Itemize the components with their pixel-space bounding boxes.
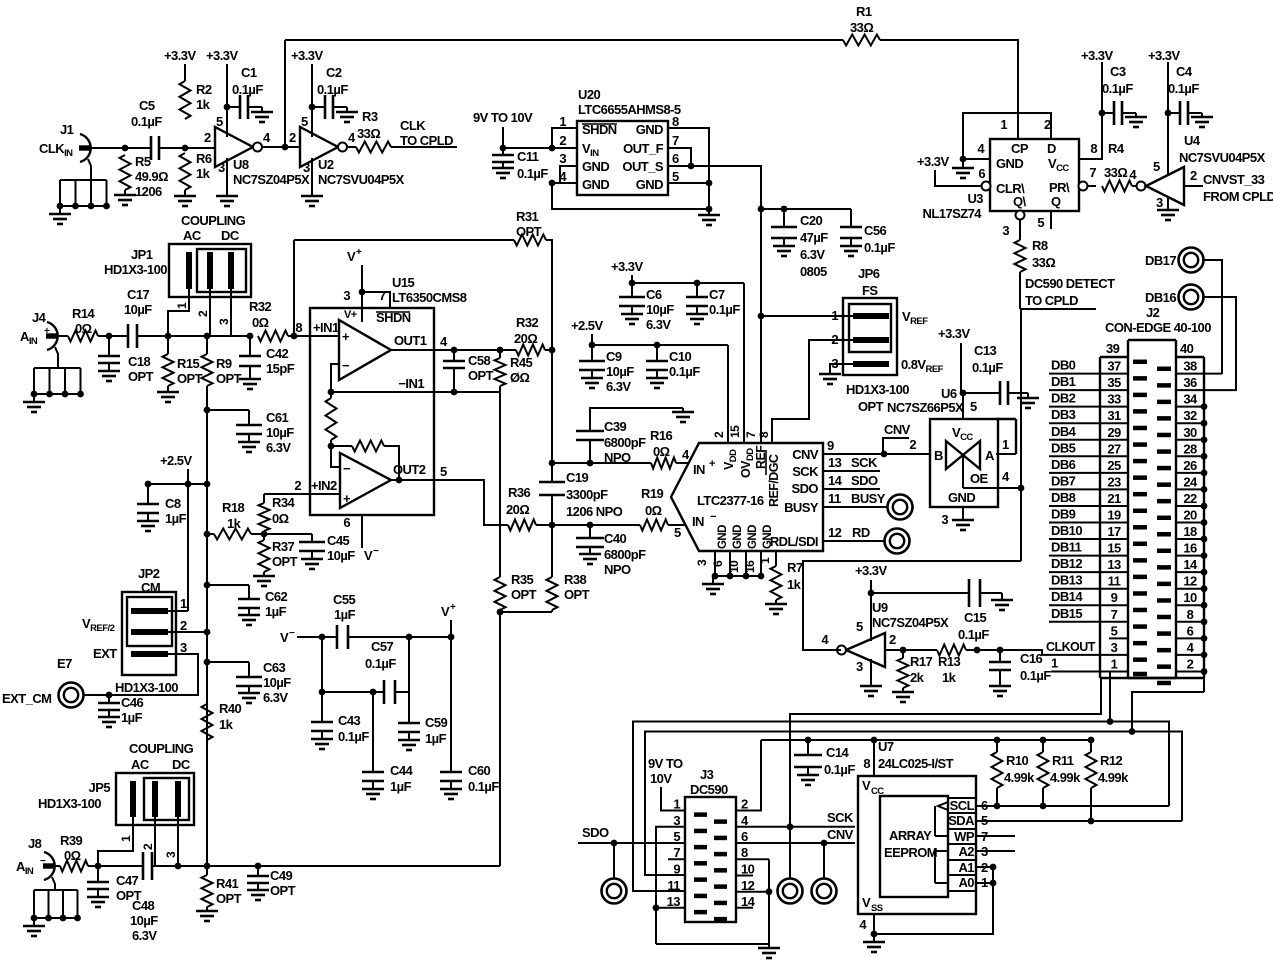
svg-text:GND: GND [747, 525, 759, 549]
svg-text:20Ω: 20Ω [514, 331, 537, 346]
svg-text:C56: C56 [864, 223, 887, 238]
svg-text:3: 3 [941, 512, 948, 527]
flipflop U3 NL17SZ74 [990, 139, 1079, 211]
svg-text:16: 16 [1183, 541, 1197, 556]
svg-text:C20: C20 [800, 213, 823, 228]
svg-text:33Ω: 33Ω [850, 20, 873, 35]
wire VREF cap rail [761, 208, 851, 210]
svg-text:D: D [1047, 141, 1056, 156]
svg-text:R14: R14 [72, 306, 96, 321]
svg-text:11: 11 [1108, 574, 1121, 589]
svg-text:C8: C8 [165, 496, 181, 511]
svg-text:C48: C48 [132, 898, 155, 913]
svg-text:CON-EDGE 40-100: CON-EDGE 40-100 [1105, 320, 1211, 335]
svg-text:+: + [44, 326, 50, 337]
J3 pin12 wire [736, 891, 769, 893]
resistor R32 20ohm (output) [516, 345, 545, 356]
V- branch down [321, 637, 323, 692]
net CLK TO CPLD [391, 146, 457, 148]
svg-text:+3.3V: +3.3V [291, 48, 323, 63]
svg-text:EXT_CM: EXT_CM [2, 691, 51, 706]
node C18 [106, 333, 113, 340]
svg-text:J4: J4 [32, 310, 47, 325]
svg-text:R10: R10 [1006, 753, 1029, 768]
JP5 pin2 wire [154, 817, 156, 866]
svg-text:6800pF: 6800pF [604, 435, 646, 450]
capacitor C62 1uF [207, 584, 249, 586]
svg-text:C44: C44 [390, 763, 414, 778]
U3 pin4 GND [963, 158, 990, 160]
svg-text:DB14: DB14 [1051, 589, 1083, 604]
opamp U15 LT6350CMS8 [310, 308, 434, 515]
ADC bottom gnd pins [714, 551, 716, 576]
V+ rail down to C60 [450, 637, 452, 772]
svg-text:GND: GND [732, 525, 744, 549]
svg-text:8: 8 [863, 756, 870, 771]
U8 pin3 ground [226, 158, 228, 190]
wire U8 out [262, 146, 285, 148]
svg-text:JP6: JP6 [858, 266, 880, 281]
svg-text:U15: U15 [392, 275, 415, 290]
capacitor C56 0.1uF [850, 209, 852, 227]
resistor R13 1k [903, 649, 937, 651]
svg-text:5: 5 [672, 169, 679, 184]
open node bubble [1137, 182, 1146, 191]
capacitor C18 OPT [108, 336, 110, 356]
svg-text:HD1X3-100: HD1X3-100 [104, 262, 167, 277]
svg-text:C17: C17 [127, 287, 150, 302]
U2 pin3 ground [311, 158, 313, 190]
svg-text:DB7: DB7 [1051, 473, 1076, 488]
svg-text:V: V [364, 548, 373, 563]
node C47 [95, 863, 102, 870]
svg-text:DB11: DB11 [1051, 540, 1082, 555]
svg-text:−: − [40, 856, 46, 867]
J3 pin13 wire [656, 907, 685, 909]
svg-text:HD1X3-100: HD1X3-100 [38, 796, 101, 811]
svg-text:Q\: Q\ [1013, 194, 1027, 209]
wire R35 R38 bottoms [499, 610, 501, 612]
svg-text:GND: GND [582, 159, 609, 174]
node +IN1 [291, 333, 298, 340]
svg-text:R19: R19 [641, 486, 664, 501]
svg-text:BUSY: BUSY [784, 500, 819, 515]
svg-text:C39: C39 [604, 419, 627, 434]
U20 ground [706, 206, 713, 213]
svg-text:9: 9 [1111, 590, 1118, 605]
capacitor C39 6800pF NPO [590, 408, 683, 431]
svg-text:5: 5 [673, 829, 680, 844]
U3 pin8 VCC wire [1079, 62, 1102, 159]
resistor R34 0ohm [263, 494, 265, 503]
wire J1 to C5 [122, 145, 129, 152]
svg-text:U6: U6 [941, 386, 957, 401]
capacitor C59 1uF [408, 692, 410, 723]
svg-text:+3.3V: +3.3V [855, 563, 887, 578]
svg-text:R37: R37 [272, 539, 295, 554]
svg-text:21: 21 [1107, 491, 1121, 506]
svg-text:NC7SZ04P5X: NC7SZ04P5X [233, 172, 310, 187]
svg-text:NC7SVU04P5X: NC7SVU04P5X [318, 172, 405, 187]
svg-text:5: 5 [970, 399, 977, 414]
svg-text:C2: C2 [326, 65, 342, 80]
svg-text:6800pF: 6800pF [604, 547, 646, 562]
svg-text:DC: DC [172, 757, 191, 772]
J3 pin3 wire [656, 827, 685, 944]
svg-text:CNV: CNV [792, 447, 819, 462]
bus line A J2 column to SCK [790, 678, 1101, 826]
svg-text:10µF: 10µF [606, 364, 634, 379]
svg-text:C55: C55 [333, 592, 356, 607]
svg-text:A: A [985, 448, 995, 463]
svg-text:25: 25 [1107, 458, 1121, 473]
wire R31 row [294, 239, 514, 241]
opamp A feedback to -IN1 [331, 364, 339, 392]
svg-text:DB12: DB12 [1051, 556, 1082, 571]
svg-text:2: 2 [559, 133, 566, 148]
svg-text:10µF: 10µF [646, 302, 674, 317]
resistor R39 0ohm [60, 861, 88, 872]
svg-text:GND: GND [948, 490, 975, 505]
resistor R14 0ohm [68, 331, 98, 342]
svg-text:WP: WP [954, 829, 975, 844]
svg-text:4.99k: 4.99k [1098, 770, 1129, 785]
svg-text:3: 3 [218, 160, 225, 175]
U7 pin1 A0 wire [976, 882, 993, 884]
svg-text:R40: R40 [219, 701, 242, 716]
resistor R19 0ohm [640, 520, 668, 531]
svg-text:CNV: CNV [827, 827, 854, 842]
svg-text:0.1µF: 0.1µF [468, 779, 499, 794]
J2 pin dashes [1133, 360, 1147, 365]
svg-text:12: 12 [1183, 574, 1197, 589]
svg-text:0.1µF: 0.1µF [958, 627, 989, 642]
svg-text:R7: R7 [787, 560, 803, 575]
connector J8 AIN- [44, 852, 55, 880]
ground ADC [712, 576, 714, 584]
svg-text:8: 8 [295, 320, 302, 335]
ground R15 [167, 386, 169, 392]
ground C39 [682, 408, 684, 412]
resistor R3 33ohm [356, 142, 391, 153]
svg-text:6.3V: 6.3V [132, 928, 157, 943]
U4 pin3 ground [1167, 196, 1169, 210]
svg-text:1: 1 [119, 835, 133, 842]
svg-text:2: 2 [741, 797, 748, 812]
net SCK stub [823, 470, 880, 472]
resistor R37 OPT [263, 534, 265, 540]
U20 pin5 gnd wire [668, 182, 709, 184]
svg-text:C7: C7 [709, 287, 725, 302]
svg-text:C43: C43 [338, 713, 361, 728]
svg-text:1µF: 1µF [425, 731, 447, 746]
svg-text:R45: R45 [510, 355, 533, 370]
V+ branch down [408, 637, 410, 692]
capacitor C42 15pF [207, 335, 250, 337]
svg-text:3: 3 [673, 813, 680, 828]
svg-text:3: 3 [1111, 640, 1118, 655]
svg-text:10µF: 10µF [124, 302, 152, 317]
svg-text:U4: U4 [1184, 133, 1201, 148]
svg-text:DC590: DC590 [690, 782, 728, 797]
svg-text:5: 5 [1037, 215, 1044, 230]
svg-text:OPT: OPT [216, 371, 242, 386]
svg-text:FS: FS [862, 283, 878, 298]
svg-text:1k: 1k [196, 97, 211, 112]
svg-text:49.9Ω: 49.9Ω [135, 169, 168, 184]
svg-text:C45: C45 [327, 533, 350, 548]
svg-text:+2.5V: +2.5V [571, 318, 603, 333]
svg-text:11: 11 [667, 878, 680, 893]
svg-text:IN: IN [693, 462, 705, 477]
svg-text:30: 30 [1183, 425, 1197, 440]
resistor R32 0ohm input [258, 331, 288, 342]
capacitor C61 10uF 6.3V [207, 409, 249, 411]
wire R35 node down to AIN- row [499, 612, 501, 866]
svg-text:6.3V: 6.3V [800, 247, 825, 262]
net label CNV [883, 438, 909, 454]
svg-text:22: 22 [1183, 491, 1197, 506]
svg-text:+3.3V: +3.3V [611, 259, 643, 274]
wire JP6 pin1 VREF [761, 315, 853, 317]
svg-text:OUT_F: OUT_F [623, 141, 663, 156]
U7 pin5 SDA wire [976, 820, 1182, 822]
svg-text:1: 1 [180, 596, 187, 611]
resistor R31 OPT [514, 235, 546, 246]
svg-text:GND: GND [996, 156, 1023, 171]
svg-text:5: 5 [1153, 159, 1160, 174]
svg-text:6: 6 [741, 829, 748, 844]
resistor R10 4.99k [996, 740, 998, 752]
svg-text:C60: C60 [468, 763, 491, 778]
svg-text:0.1µF: 0.1µF [1102, 81, 1133, 96]
U7 pin7 WP stub [976, 835, 1015, 837]
wire OUT_S to REF [668, 166, 761, 443]
internal resistor divider [326, 398, 337, 440]
svg-text:GND: GND [717, 525, 729, 549]
svg-text:34: 34 [1183, 392, 1198, 407]
node C11 [500, 145, 507, 152]
svg-text:DB5: DB5 [1051, 440, 1076, 455]
svg-text:1µF: 1µF [334, 607, 356, 622]
svg-text:0.1µF: 0.1µF [709, 302, 740, 317]
svg-text:10µF: 10µF [327, 548, 355, 563]
svg-text:1: 1 [1051, 656, 1058, 671]
U4 input wire CNVST_33 [1184, 185, 1203, 187]
svg-text:0.1µF: 0.1µF [864, 240, 895, 255]
svg-text:3: 3 [695, 559, 709, 566]
resistor R40 1k [202, 704, 213, 740]
svg-text:SCL: SCL [950, 798, 975, 813]
svg-text:0.1µF: 0.1µF [131, 114, 162, 129]
svg-text:LTC2377-16: LTC2377-16 [697, 493, 764, 508]
svg-text:NPO: NPO [604, 562, 631, 577]
resistor R15 OPT [167, 336, 169, 354]
opamp A triangle [339, 320, 391, 380]
svg-text:C11: C11 [517, 149, 539, 164]
U7 pin4 VSS [873, 914, 875, 934]
svg-text:U7: U7 [878, 739, 894, 754]
svg-text:0.1µF: 0.1µF [317, 82, 348, 97]
VCC bus rail [761, 739, 1091, 741]
node CM join [204, 863, 211, 870]
-IN1 wire out [434, 391, 500, 393]
ground C1 [261, 107, 263, 112]
svg-text:9: 9 [673, 862, 680, 877]
node JP5 pin3 [175, 863, 182, 870]
svg-text:10V: 10V [650, 771, 672, 786]
svg-text:LT6350CMS8: LT6350CMS8 [392, 290, 467, 305]
node C17 out [165, 333, 172, 340]
svg-text:2: 2 [294, 478, 301, 493]
svg-text:+3.3V: +3.3V [1081, 48, 1113, 63]
U9 output wire to U6 OE [803, 561, 1021, 650]
svg-text:C47: C47 [116, 873, 139, 888]
svg-text:B: B [934, 448, 943, 463]
svg-text:1µF: 1µF [265, 604, 287, 619]
capacitor C14 0.1uF [805, 737, 812, 744]
+IN2 wire [264, 493, 340, 495]
resistor R8 33ohm [1019, 219, 1021, 240]
svg-text:36: 36 [1183, 375, 1197, 390]
U3 pin5 Q stub [1050, 211, 1052, 229]
svg-text:1: 1 [175, 302, 189, 309]
svg-text:V+: V+ [344, 309, 357, 321]
svg-text:15pF: 15pF [266, 361, 295, 376]
svg-text:5: 5 [440, 464, 447, 479]
svg-text:CNV: CNV [884, 422, 911, 437]
wire AIN- to R35 node [258, 865, 500, 867]
svg-text:−: − [373, 546, 379, 557]
svg-text:DB0: DB0 [1051, 358, 1076, 373]
U7 SCL arrow [938, 802, 948, 810]
svg-text:37: 37 [1107, 359, 1121, 374]
svg-text:3: 3 [1156, 195, 1163, 210]
wire R31 to vertical [546, 240, 552, 350]
svg-text:2: 2 [180, 618, 187, 633]
svg-text:SS: SS [871, 903, 883, 914]
svg-text:ARRAY: ARRAY [889, 828, 932, 843]
connector J4 AIN+ [47, 322, 58, 350]
svg-text:C61: C61 [266, 410, 289, 425]
svg-text:8: 8 [672, 114, 679, 129]
svg-text:OPT: OPT [516, 224, 542, 239]
svg-text:+IN2: +IN2 [311, 478, 337, 493]
svg-text:24LC025-I/ST: 24LC025-I/ST [878, 756, 954, 771]
svg-text:R2: R2 [196, 82, 212, 97]
J3 pin8 wire [736, 858, 769, 860]
svg-text:R38: R38 [564, 572, 587, 587]
J2 row dividers and numbers [1049, 373, 1128, 375]
svg-text:OPT: OPT [564, 587, 590, 602]
U7 pin6 SCL wire [976, 805, 1169, 807]
svg-text:1: 1 [559, 114, 566, 129]
svg-text:C10: C10 [669, 349, 692, 364]
wire R1 to U3 CP [880, 40, 1018, 139]
svg-text:40: 40 [1180, 341, 1194, 356]
ground R6 [184, 190, 186, 196]
svg-text:R17: R17 [910, 654, 933, 669]
svg-text:2: 2 [141, 843, 155, 850]
svg-text:6: 6 [343, 515, 350, 530]
U20 pin3 tie to pin4 [560, 166, 577, 183]
capacitor C8 1uF [147, 484, 149, 504]
U6 bowtie switch [946, 441, 963, 469]
capacitor C10 0.1uF [656, 345, 658, 361]
svg-text:6.3V: 6.3V [646, 317, 671, 332]
svg-text:C13: C13 [974, 343, 997, 358]
svg-text:C4: C4 [1176, 64, 1193, 79]
capacitor C58 OPT [453, 350, 455, 361]
svg-text:NC7SVU04P5X: NC7SVU04P5X [1179, 150, 1266, 165]
resistor R1 33ohm [843, 35, 880, 46]
svg-text:8: 8 [757, 431, 771, 438]
svg-text:1k: 1k [219, 717, 234, 732]
svg-text:0.1µF: 0.1µF [669, 364, 700, 379]
U3 pin3 Q\ bubble [1016, 211, 1025, 220]
capacitor C17 10uF [127, 324, 130, 348]
OUT2 wire to R36 [434, 480, 508, 525]
resistor R38 OPT [551, 525, 553, 577]
svg-text:V: V [862, 895, 871, 910]
svg-text:32: 32 [1183, 408, 1197, 423]
svg-text:+IN1: +IN1 [313, 320, 339, 335]
svg-text:2: 2 [909, 437, 916, 452]
svg-text:DB16: DB16 [1145, 290, 1176, 305]
svg-text:NPO: NPO [604, 450, 631, 465]
capacitor C44 1uF [372, 692, 374, 772]
resistor R4 33ohm [1102, 181, 1132, 192]
svg-text:C1: C1 [241, 65, 257, 80]
capacitor C40 6800pF NPO [589, 525, 591, 538]
U20 pin1 tie to pin2 [552, 128, 577, 148]
svg-text:HD1X3-100: HD1X3-100 [846, 382, 909, 397]
U7 pin cells [948, 797, 976, 799]
wire DB17 to J2 pin38 [1202, 260, 1222, 374]
capacitor C13 0.1uF [963, 392, 1000, 394]
svg-text:CP: CP [1011, 141, 1029, 156]
node R18 R34 [261, 531, 268, 538]
resistor R16 0ohm [651, 458, 676, 469]
JP5 pin1 wire [98, 817, 133, 866]
svg-text:2: 2 [196, 310, 210, 317]
wire J2 pin1 drop [1109, 672, 1111, 722]
capacitor C60 0.1uF [440, 771, 462, 774]
svg-text:4.99k: 4.99k [1004, 770, 1035, 785]
svg-text:10: 10 [1183, 590, 1197, 605]
svg-text:7: 7 [673, 845, 680, 860]
inverter U8 NC7SZ04P5X [215, 127, 253, 167]
svg-text:OUT1: OUT1 [394, 333, 427, 348]
svg-text:DB8: DB8 [1051, 490, 1076, 505]
U6 pin3 ground [962, 507, 964, 520]
turret CNV [823, 843, 825, 878]
svg-text:20Ω: 20Ω [506, 502, 529, 517]
svg-text:R34: R34 [272, 495, 296, 510]
svg-text:1: 1 [673, 797, 680, 812]
J3 pin7 stub [668, 858, 685, 860]
svg-text:OPT: OPT [468, 368, 494, 383]
svg-text:C9: C9 [606, 349, 622, 364]
svg-text:DB2: DB2 [1051, 391, 1076, 406]
svg-text:3: 3 [180, 640, 187, 655]
svg-text:+: + [342, 329, 350, 344]
svg-text:C18: C18 [128, 354, 151, 369]
svg-text:JP2: JP2 [138, 566, 160, 581]
svg-text:A2: A2 [958, 844, 974, 859]
svg-text:DB4: DB4 [1051, 424, 1077, 439]
turret SDO [613, 843, 615, 878]
